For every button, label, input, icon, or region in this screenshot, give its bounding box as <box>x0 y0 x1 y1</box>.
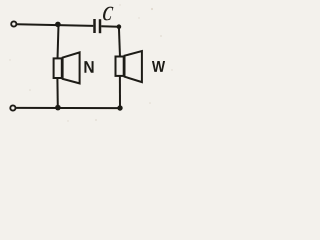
wire: N speaker bottom lead <box>56 78 58 108</box>
node C: junction bottom rail / N branch <box>55 105 61 111</box>
wire: bottom rail (return) <box>16 107 120 109</box>
label C (capacitor value) <box>102 7 113 21</box>
loudspeaker LS2 "W" horn <box>125 51 142 82</box>
wire: W speaker bottom lead <box>119 76 121 108</box>
label N <box>84 61 93 73</box>
input terminal top (open circle) <box>11 21 16 26</box>
node D: junction bottom rail / W branch <box>117 105 122 110</box>
node B: junction capacitor / W branch <box>117 24 122 29</box>
wire: N tweeter vertical drop from top rail <box>58 25 59 59</box>
capacitor C right plate <box>99 19 102 33</box>
loudspeaker LS1 "N" horn <box>63 52 80 83</box>
node A: junction top rail / N branch <box>55 22 61 28</box>
label W <box>152 61 165 72</box>
paper background <box>0 0 180 132</box>
capacitor C left plate <box>93 19 96 33</box>
wire: top rail left segment (terminal to capacitor) <box>17 24 93 26</box>
wire: capacitor to node B <box>101 25 119 27</box>
input terminal bottom (open circle) <box>10 105 15 110</box>
loudspeaker LS1 "N" driver body <box>54 58 62 78</box>
loudspeaker LS2 "W" driver body <box>116 57 124 76</box>
wire: W woofer vertical drop from node B <box>119 27 120 57</box>
